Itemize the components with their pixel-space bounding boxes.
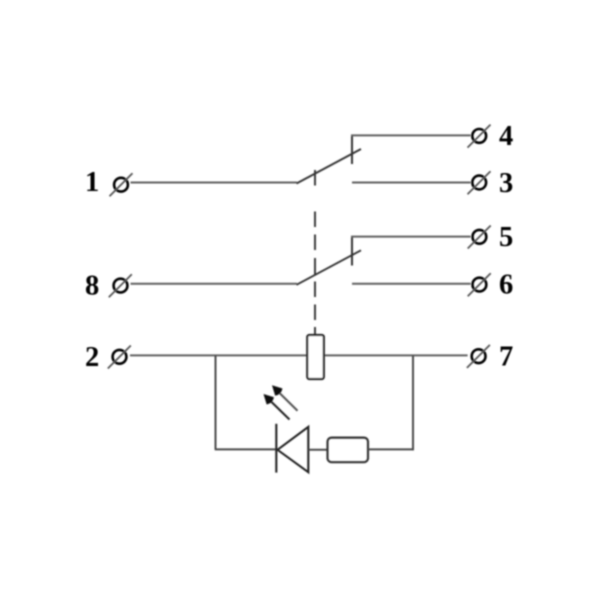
svg-text:1: 1 bbox=[85, 167, 99, 198]
svg-text:5: 5 bbox=[499, 222, 513, 253]
wire: right branch up bbox=[412, 355, 414, 450]
wire: terminal 3 bbox=[352, 182, 471, 184]
terminal 6 circle-slash bbox=[468, 273, 491, 296]
terminal 1 circle-slash bbox=[110, 173, 133, 196]
svg-text:6: 6 bbox=[499, 270, 513, 301]
contact stub A (terminal 4 side) bbox=[351, 135, 353, 165]
relay coil K1 bbox=[307, 335, 324, 379]
wire: terminal 6 bbox=[352, 283, 471, 285]
wire: terminal 4 bbox=[351, 134, 471, 136]
LED D1 triangle bbox=[278, 427, 309, 472]
wire: terminal 8 common bbox=[131, 283, 298, 285]
svg-text:7: 7 bbox=[499, 342, 513, 373]
svg-text:2: 2 bbox=[85, 342, 99, 373]
wire: terminal 2 to coil bbox=[130, 354, 307, 356]
switch arm A (pole 1) bbox=[297, 149, 362, 184]
wire: resistor to right branch bbox=[368, 448, 414, 450]
wire: left branch to LED bbox=[215, 448, 276, 450]
svg-text:4: 4 bbox=[499, 121, 513, 152]
wire: coil to terminal 7 bbox=[324, 354, 468, 356]
wire: LED to resistor bbox=[309, 449, 328, 451]
svg-text:3: 3 bbox=[499, 168, 513, 199]
terminal 2 circle-slash bbox=[108, 346, 131, 369]
resistor R1 bbox=[328, 438, 369, 463]
svg-text:8: 8 bbox=[85, 271, 99, 302]
wire: terminal 5 bbox=[351, 236, 471, 238]
actuator dashed link bbox=[314, 170, 316, 335]
wire: left branch down bbox=[215, 355, 217, 449]
terminal 3 circle-slash bbox=[468, 171, 491, 194]
contact stub B (terminal 5 side) bbox=[351, 236, 353, 266]
terminal 8 circle-slash bbox=[109, 274, 132, 297]
LED emission arrow 2 bbox=[272, 385, 298, 410]
wire: terminal 1 common bbox=[131, 182, 298, 184]
terminal 5 circle-slash bbox=[468, 226, 491, 249]
LED D1 cathode bar bbox=[275, 424, 277, 473]
terminal 7 circle-slash bbox=[467, 345, 490, 368]
switch arm B (pole 2) bbox=[297, 250, 362, 284]
LED emission arrow 1 bbox=[264, 394, 290, 420]
terminal 4 circle-slash bbox=[468, 125, 491, 148]
